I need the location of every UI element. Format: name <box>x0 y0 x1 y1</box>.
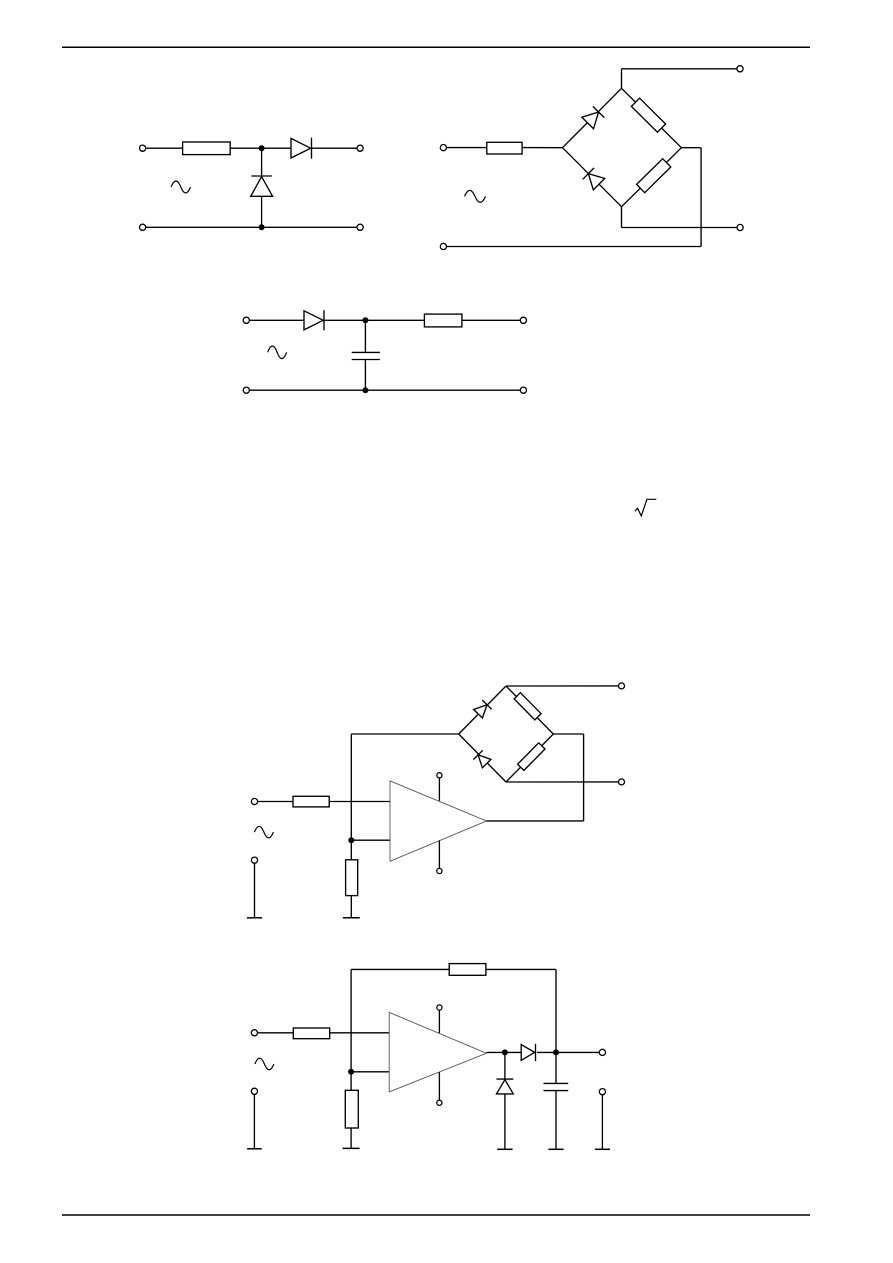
ground below R9 <box>350 896 352 918</box>
wire top-left <box>143 147 183 149</box>
wire D8 to out <box>537 1051 603 1053</box>
wire inverting input <box>351 839 390 841</box>
wire to lower-right terminal <box>622 227 741 229</box>
diode D3 (upper-left arm) <box>582 112 599 129</box>
bridge arm upper-right <box>506 686 553 734</box>
wire node1 down <box>504 1052 506 1079</box>
diode D6 (upper-left arm) <box>474 705 487 718</box>
wire inverting input <box>351 1071 389 1073</box>
terminal output <box>599 1049 605 1055</box>
radical sign <box>635 499 656 516</box>
wire bottom rail <box>246 389 523 391</box>
wire R5 to out <box>462 319 524 321</box>
wire bridge top to terminal <box>506 685 622 687</box>
wire input <box>443 147 486 149</box>
wire node A down <box>261 148 263 176</box>
node B junction <box>362 317 368 323</box>
node A junction <box>259 145 265 151</box>
bridge arm upper-left <box>563 88 622 147</box>
top rule <box>62 46 810 48</box>
terminal in- <box>243 387 249 393</box>
resistor R8 (lower-right arm) <box>518 743 545 771</box>
input ground terminal <box>251 857 257 863</box>
wire bottom node down <box>621 207 623 228</box>
source sine symbol <box>254 826 273 838</box>
terminal in- <box>140 224 146 230</box>
terminal in- <box>440 243 446 249</box>
terminal out top <box>619 683 625 689</box>
diode D9 (shunt) <box>497 1078 514 1080</box>
wire input <box>254 1032 293 1034</box>
resistor R10 <box>293 1028 329 1039</box>
bridge arm lower-right <box>622 148 682 207</box>
wire op-amp output <box>487 1051 522 1053</box>
wire op-amp output <box>487 820 584 822</box>
terminal in+ <box>440 145 446 151</box>
wire bottom rail <box>143 226 361 228</box>
op-amp U1 <box>390 781 487 861</box>
resistor R5 <box>424 314 462 327</box>
diode D4 (lower-left arm) <box>588 174 604 190</box>
output ground terminal <box>599 1089 605 1095</box>
terminal out+ <box>520 317 526 323</box>
source sine symbol <box>465 190 486 202</box>
wire node B down <box>364 320 366 352</box>
source sine symbol <box>268 346 287 359</box>
U1 V+ pin <box>438 778 440 801</box>
diode D5 <box>304 311 323 330</box>
bridge arm upper-right <box>622 88 682 147</box>
ground below D9 <box>504 1094 506 1149</box>
wire output up to bridge <box>583 734 585 821</box>
wire C1 to bottom <box>364 360 366 391</box>
terminal out bottom <box>737 224 743 230</box>
ground below C2 <box>555 1091 557 1150</box>
terminal input <box>251 1030 257 1036</box>
terminal in+ <box>140 145 146 151</box>
wire D2 to bottom <box>261 196 263 227</box>
wire R2 to bridge <box>522 147 562 149</box>
U2 V- pin <box>438 1072 440 1100</box>
output node 2 <box>553 1049 559 1055</box>
resistor R2 <box>487 142 522 154</box>
bridge arm lower-left <box>459 734 506 782</box>
feedback vertical left <box>350 969 352 1071</box>
capacitor C2 top plate <box>544 1082 569 1084</box>
wire input <box>255 801 294 803</box>
wire D5 to node B <box>324 319 424 321</box>
diode D8 (series) <box>521 1045 534 1061</box>
terminal out top <box>737 66 743 72</box>
diode D2 (shunt) <box>251 175 271 177</box>
terminal in+ <box>243 317 249 323</box>
terminal out+ <box>357 145 363 151</box>
capacitor C2 bottom plate <box>544 1090 569 1092</box>
wire R10 to op-amp <box>330 1032 390 1034</box>
resistor R6 <box>293 796 329 807</box>
wire bridge bottom to terminal <box>506 781 622 783</box>
wire bottom rail <box>443 246 701 248</box>
bridge arm upper-left <box>459 686 506 734</box>
resistor R11 (feedback) <box>449 964 486 976</box>
bottom junction <box>362 387 368 393</box>
capacitor C1 top plate <box>352 351 380 353</box>
feedback vertical right <box>555 969 557 1083</box>
wire in <box>246 319 304 321</box>
wire right node <box>681 147 701 149</box>
feedback top wire <box>351 733 458 735</box>
feedback top wire left <box>351 968 449 970</box>
input ground terminal <box>251 1088 257 1094</box>
wire D1 to out <box>312 147 360 149</box>
bridge arm lower-right <box>506 734 553 782</box>
capacitor C1 bottom plate <box>352 359 380 361</box>
resistor R7 (upper-right arm) <box>514 693 541 720</box>
resistor R9 to ground <box>350 840 352 860</box>
output node 1 <box>502 1049 508 1055</box>
bridge arm lower-left <box>563 148 622 207</box>
resistor R12 to ground <box>350 1072 352 1091</box>
wire R1 to node A <box>230 147 291 149</box>
terminal out- <box>520 387 526 393</box>
source sine symbol <box>171 181 190 193</box>
wire R6 to op-amp <box>329 801 390 803</box>
wire to top-right terminal <box>622 68 741 70</box>
wire top node up <box>621 69 623 89</box>
feedback vertical wire <box>350 734 352 840</box>
source sine symbol <box>255 1058 274 1070</box>
wire right vertical <box>700 148 702 247</box>
bottom junction <box>259 224 265 230</box>
bottom rule <box>62 1214 810 1216</box>
ground below R12 <box>350 1128 352 1148</box>
terminal out bottom <box>619 779 625 785</box>
U2 V+ pin <box>438 1010 440 1033</box>
resistor R1 <box>183 142 231 155</box>
inverting node junction <box>348 837 354 843</box>
terminal input <box>251 798 257 804</box>
terminal out- <box>357 224 363 230</box>
feedback top wire right <box>486 968 556 970</box>
resistor R4 (lower-right arm) <box>637 159 671 193</box>
resistor R3 (upper-right arm) <box>631 98 665 132</box>
op-amp U2 <box>389 1012 486 1092</box>
U1 V- pin <box>438 840 440 868</box>
inverting node junction <box>348 1069 354 1075</box>
wire bridge right node <box>553 733 583 735</box>
diode D1 <box>291 138 311 158</box>
diode D7 (lower-left arm) <box>478 755 491 768</box>
